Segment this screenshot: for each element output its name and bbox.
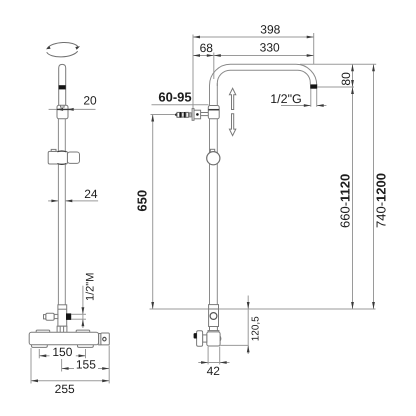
svg-text:68: 68 xyxy=(200,41,214,55)
svg-text:120,5: 120,5 xyxy=(250,316,261,341)
svg-text:255: 255 xyxy=(55,382,75,396)
svg-text:60-95: 60-95 xyxy=(158,90,191,105)
svg-text:150: 150 xyxy=(52,345,72,359)
svg-text:80: 80 xyxy=(339,72,353,86)
svg-text:740-1200: 740-1200 xyxy=(374,173,389,228)
svg-text:42: 42 xyxy=(207,364,221,378)
svg-text:660-1120: 660-1120 xyxy=(338,174,353,228)
svg-text:330: 330 xyxy=(260,41,280,55)
svg-text:20: 20 xyxy=(83,94,97,108)
svg-text:155: 155 xyxy=(76,358,96,372)
svg-text:398: 398 xyxy=(260,23,280,37)
svg-text:24: 24 xyxy=(84,187,98,201)
svg-text:1/2"M: 1/2"M xyxy=(85,273,97,301)
svg-text:650: 650 xyxy=(135,190,150,212)
svg-text:1/2"G: 1/2"G xyxy=(270,92,302,106)
